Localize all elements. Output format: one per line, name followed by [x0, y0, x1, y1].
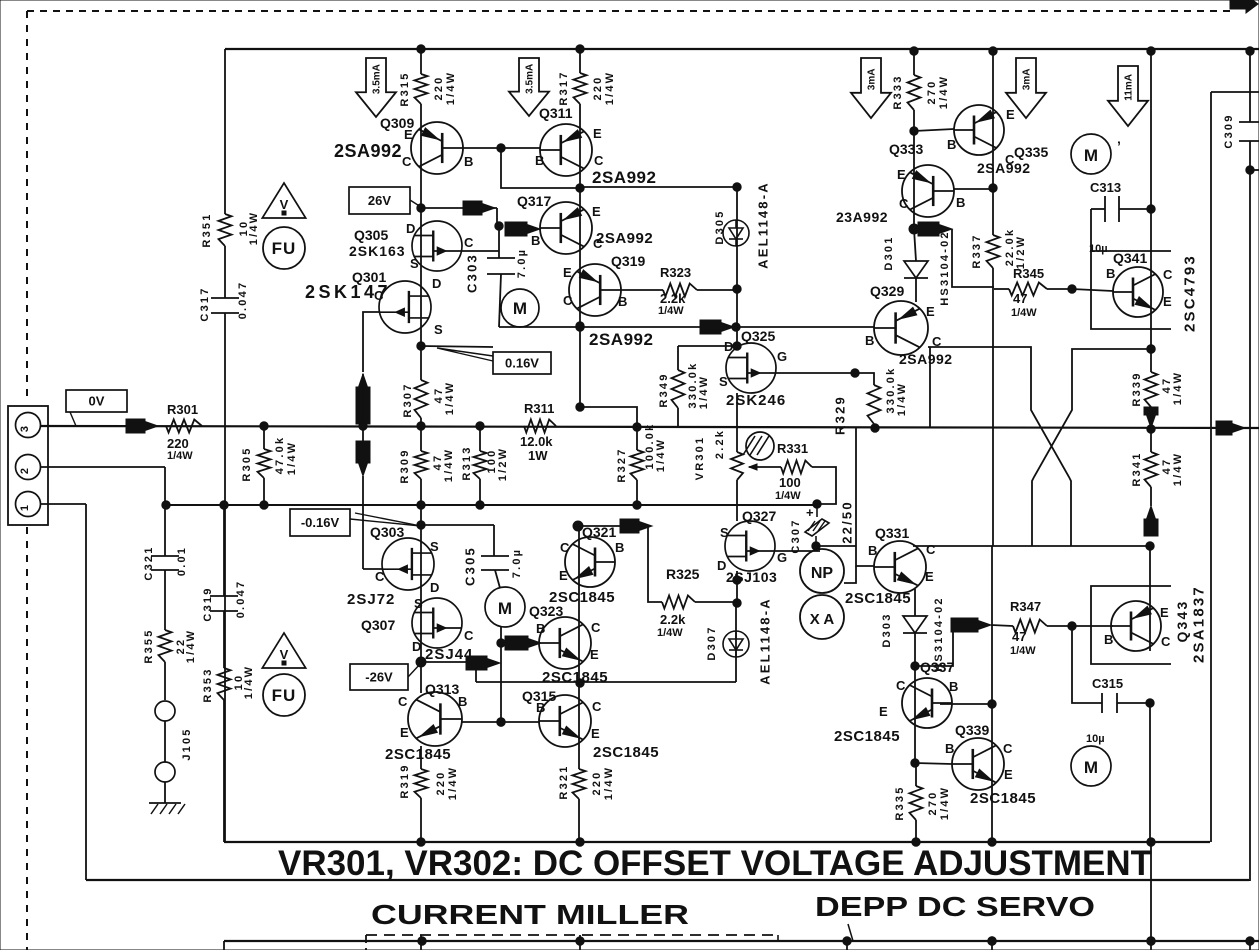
svg-text:E: E [593, 126, 602, 141]
svg-text:0.047: 0.047 [235, 580, 247, 619]
svg-text:Q339: Q339 [955, 722, 989, 738]
svg-text:Q307: Q307 [361, 617, 395, 633]
svg-text:G: G [777, 550, 787, 565]
svg-text:J105: J105 [181, 727, 193, 760]
svg-text:+: + [806, 505, 814, 520]
svg-text:1/4W: 1/4W [939, 786, 951, 820]
svg-text:DEPP DC SERVO: DEPP DC SERVO [815, 891, 1095, 922]
svg-text:C: C [896, 678, 906, 693]
svg-text:Q333: Q333 [889, 141, 923, 157]
svg-text:D: D [717, 558, 726, 573]
svg-text:HS3104-02: HS3104-02 [939, 230, 951, 305]
svg-text:B: B [865, 333, 874, 348]
svg-text:1/4W: 1/4W [603, 766, 615, 800]
svg-text:2SC1845: 2SC1845 [845, 590, 911, 607]
svg-text:C: C [1003, 741, 1013, 756]
svg-text:Q319: Q319 [611, 253, 645, 269]
svg-text:C307: C307 [790, 518, 802, 553]
svg-text:D307: D307 [706, 625, 718, 660]
svg-text:B: B [531, 233, 540, 248]
svg-text:R329: R329 [833, 395, 848, 435]
svg-text:C: C [591, 620, 601, 635]
svg-text:2SJ72: 2SJ72 [347, 591, 395, 608]
svg-text:E: E [897, 167, 906, 182]
svg-text:0V: 0V [89, 394, 105, 409]
svg-text:E: E [879, 704, 888, 719]
svg-text:B: B [618, 294, 627, 309]
svg-text:C305: C305 [463, 546, 478, 586]
svg-text:1/4W: 1/4W [1010, 645, 1036, 657]
svg-text:R331: R331 [777, 441, 808, 456]
svg-text:C: C [464, 628, 474, 643]
svg-text:2: 2 [19, 468, 31, 474]
svg-text:R315: R315 [399, 71, 411, 106]
svg-text:R309: R309 [399, 448, 411, 483]
svg-text:1/4W: 1/4W [1172, 452, 1184, 486]
svg-text:1/4W: 1/4W [444, 381, 456, 415]
svg-text:2SC1845: 2SC1845 [593, 744, 659, 761]
svg-text:C: C [398, 694, 408, 709]
svg-text:C: C [1161, 634, 1171, 649]
svg-text:7.0µ: 7.0µ [511, 548, 523, 578]
svg-text:D305: D305 [714, 209, 726, 244]
svg-text:2SK163: 2SK163 [349, 243, 406, 259]
svg-text:-26V: -26V [365, 670, 393, 685]
svg-text:B: B [947, 137, 956, 152]
svg-text:C319: C319 [202, 586, 214, 621]
svg-text:R353: R353 [202, 667, 214, 702]
svg-text:M: M [1084, 146, 1098, 165]
svg-text:Q329: Q329 [870, 283, 904, 299]
svg-text:2SA992: 2SA992 [977, 160, 1031, 176]
svg-text:R305: R305 [241, 446, 253, 481]
svg-text:2SC1845: 2SC1845 [385, 746, 451, 763]
svg-text:2SC1845: 2SC1845 [542, 669, 608, 686]
svg-text:R307: R307 [402, 382, 414, 417]
svg-text:B: B [949, 679, 958, 694]
svg-text:23A992: 23A992 [836, 209, 888, 225]
svg-text:2.2k: 2.2k [660, 291, 686, 306]
svg-text:V: V [280, 647, 289, 662]
svg-text:1/4W: 1/4W [248, 211, 260, 245]
svg-text:G: G [777, 349, 787, 364]
svg-text:R323: R323 [660, 265, 691, 280]
svg-text:VR301, VR302: DC OFFSET VOLTAG: VR301, VR302: DC OFFSET VOLTAGE ADJUSTME… [278, 844, 1152, 883]
svg-text:1/2W: 1/2W [1015, 235, 1027, 269]
svg-text:B: B [868, 543, 877, 558]
svg-text:12.0k: 12.0k [520, 434, 553, 449]
svg-text:3: 3 [19, 426, 31, 432]
svg-text:C: C [899, 196, 909, 211]
svg-text:2SC1845: 2SC1845 [549, 589, 615, 606]
svg-text:47: 47 [1013, 291, 1027, 306]
svg-text:E: E [1004, 767, 1013, 782]
svg-text:C: C [1005, 152, 1015, 167]
svg-text:R327: R327 [616, 447, 628, 482]
svg-text:D: D [724, 339, 733, 354]
svg-text:2SA992: 2SA992 [592, 168, 656, 187]
svg-text:1/4W: 1/4W [1011, 307, 1037, 319]
svg-text:S: S [430, 539, 439, 554]
svg-text:2SA1837: 2SA1837 [1190, 585, 1207, 663]
svg-text:3mA: 3mA [867, 69, 878, 91]
svg-text:1/2W: 1/2W [497, 447, 509, 481]
svg-text:B: B [458, 694, 467, 709]
svg-text:Q343: Q343 [1174, 599, 1190, 642]
svg-text:2.2k: 2.2k [660, 612, 686, 627]
svg-text:R341: R341 [1131, 451, 1143, 486]
svg-text:2SC1845: 2SC1845 [834, 728, 900, 745]
svg-text:1/4W: 1/4W [185, 629, 197, 663]
svg-text:26V: 26V [368, 193, 391, 208]
svg-text:R345: R345 [1013, 266, 1044, 281]
svg-text:C: C [464, 235, 474, 250]
svg-text:C303: C303 [465, 253, 480, 293]
svg-text:R311: R311 [524, 401, 554, 416]
svg-text:3.5mA: 3.5mA [525, 64, 536, 94]
svg-text:C309: C309 [1223, 113, 1235, 148]
svg-text:2.2k: 2.2k [714, 429, 726, 459]
svg-text:E: E [1006, 107, 1015, 122]
svg-text:47: 47 [1012, 629, 1026, 644]
svg-text:Q331: Q331 [875, 525, 909, 541]
svg-text:1/4W: 1/4W [445, 71, 457, 105]
svg-text:Q321: Q321 [582, 524, 616, 540]
svg-text:E: E [926, 304, 935, 319]
svg-text:AEL1148-A: AEL1148-A [756, 181, 771, 269]
svg-text:E: E [404, 127, 413, 142]
svg-text:C: C [592, 699, 602, 714]
svg-text:-0.16V: -0.16V [301, 515, 340, 530]
svg-text:D303: D303 [881, 612, 893, 647]
svg-text:R355: R355 [143, 628, 155, 663]
svg-text:C: C [374, 288, 384, 303]
svg-text:1/4W: 1/4W [658, 305, 684, 317]
svg-text:S: S [410, 256, 419, 271]
svg-text:C: C [926, 542, 936, 557]
svg-text:NP: NP [811, 565, 834, 582]
svg-text:Q317: Q317 [517, 193, 551, 209]
svg-text:2SA992: 2SA992 [899, 351, 953, 367]
svg-text:Q305: Q305 [354, 227, 388, 243]
svg-text:2SA992: 2SA992 [589, 330, 653, 349]
svg-text:2SA992: 2SA992 [596, 230, 653, 247]
svg-text:D301: D301 [883, 235, 895, 270]
svg-text:FU: FU [272, 686, 297, 705]
svg-text:1/4W: 1/4W [443, 448, 455, 482]
svg-text:220: 220 [435, 771, 447, 796]
svg-text:C: C [402, 154, 412, 169]
svg-text:C: C [1163, 267, 1173, 282]
svg-text:R351: R351 [201, 212, 213, 247]
svg-text:270: 270 [927, 791, 939, 816]
svg-text:E: E [591, 726, 600, 741]
svg-text:B: B [1104, 632, 1113, 647]
svg-text:3mA: 3mA [1022, 69, 1033, 91]
svg-text:S: S [719, 374, 728, 389]
svg-text:R317: R317 [558, 70, 570, 105]
svg-text:E: E [925, 569, 934, 584]
svg-text:E: E [592, 204, 601, 219]
svg-text:2SC4793: 2SC4793 [1181, 254, 1198, 332]
svg-text:VR301: VR301 [694, 436, 706, 481]
svg-text:B: B [464, 154, 473, 169]
svg-text:E: E [1160, 605, 1169, 620]
svg-text:CURRENT MILLER: CURRENT MILLER [371, 899, 689, 930]
svg-text:S: S [720, 525, 729, 540]
svg-text:E: E [563, 265, 572, 280]
svg-text:220: 220 [592, 76, 604, 101]
svg-text:1/4W: 1/4W [447, 766, 459, 800]
svg-text:B: B [615, 540, 624, 555]
svg-text:1/4W: 1/4W [1172, 371, 1184, 405]
svg-text:1/4W: 1/4W [896, 382, 908, 416]
svg-text:11mA: 11mA [1124, 74, 1135, 101]
svg-text:1/4W: 1/4W [243, 665, 255, 699]
svg-text:R321: R321 [558, 764, 570, 799]
svg-text:D: D [412, 639, 421, 654]
svg-text:C: C [594, 153, 604, 168]
svg-text:220: 220 [591, 771, 603, 796]
svg-text:C: C [593, 236, 603, 251]
svg-text:FU: FU [272, 239, 297, 258]
svg-text:E: E [400, 725, 409, 740]
svg-text:0.047: 0.047 [237, 281, 249, 320]
svg-text:3.5mA: 3.5mA [372, 64, 383, 94]
svg-text:C321: C321 [143, 545, 155, 580]
svg-text:270: 270 [926, 80, 938, 105]
svg-text:22/50: 22/50 [840, 500, 855, 544]
svg-text:0.01: 0.01 [176, 546, 188, 576]
svg-text:M: M [498, 599, 512, 618]
svg-text:R319: R319 [399, 763, 411, 798]
svg-text:2SA992: 2SA992 [334, 141, 402, 161]
svg-text:B: B [536, 700, 545, 715]
svg-text:B: B [956, 195, 965, 210]
svg-text:R347: R347 [1010, 599, 1041, 614]
svg-text:R325: R325 [666, 566, 700, 582]
svg-text:R313: R313 [461, 445, 473, 480]
svg-text:C315: C315 [1092, 676, 1123, 691]
svg-text:1/4W: 1/4W [286, 441, 298, 475]
svg-text:R337: R337 [971, 233, 983, 268]
svg-text:220: 220 [433, 76, 445, 101]
svg-text:X A: X A [810, 611, 835, 628]
svg-text:M: M [1084, 758, 1098, 777]
svg-text:2SC1845: 2SC1845 [970, 790, 1036, 807]
svg-text:47.0k: 47.0k [274, 436, 286, 475]
svg-text:R333: R333 [892, 74, 904, 109]
svg-text:R349: R349 [658, 372, 670, 407]
svg-text:1/4W: 1/4W [655, 438, 667, 472]
svg-text:B: B [1106, 266, 1115, 281]
svg-text:D: D [406, 221, 415, 236]
svg-text:V: V [280, 197, 289, 212]
svg-text:1/4W: 1/4W [167, 450, 193, 462]
svg-text:AEL1148-A: AEL1148-A [758, 597, 773, 685]
svg-text:Q325: Q325 [741, 328, 775, 344]
svg-text:B: B [945, 741, 954, 756]
svg-text:R301: R301 [167, 402, 198, 417]
svg-text:1/4W: 1/4W [657, 627, 683, 639]
svg-text:0.16V: 0.16V [505, 356, 539, 371]
svg-text:1/4W: 1/4W [698, 375, 710, 409]
svg-text:1W: 1W [528, 448, 548, 463]
svg-text:D: D [432, 276, 441, 291]
svg-text:S: S [414, 596, 423, 611]
svg-text:7.0µ: 7.0µ [516, 248, 528, 278]
svg-text:E: E [590, 647, 599, 662]
svg-text:D: D [430, 580, 439, 595]
svg-text:1/4W: 1/4W [604, 71, 616, 105]
svg-text:100: 100 [779, 475, 801, 490]
svg-text:R339: R339 [1131, 371, 1143, 406]
svg-text:M: M [513, 299, 527, 318]
svg-text:C: C [375, 569, 385, 584]
svg-text:Q311: Q311 [539, 105, 573, 121]
svg-text:C317: C317 [199, 286, 211, 321]
svg-text:Q335: Q335 [1014, 144, 1048, 160]
svg-text:S: S [434, 322, 443, 337]
svg-text:B: B [536, 621, 545, 636]
svg-text:’: ’ [1117, 138, 1121, 154]
svg-text:10µ: 10µ [1086, 733, 1105, 745]
svg-text:Q313: Q313 [425, 681, 459, 697]
svg-text:2SK246: 2SK246 [726, 392, 786, 409]
svg-text:R335: R335 [894, 785, 906, 820]
svg-text:1/4W: 1/4W [938, 75, 950, 109]
svg-text:C: C [560, 540, 570, 555]
svg-text:1/4W: 1/4W [775, 490, 801, 502]
svg-text:Q327: Q327 [742, 508, 776, 524]
svg-text:E: E [1163, 294, 1172, 309]
svg-text:E: E [559, 568, 568, 583]
svg-text:Q337: Q337 [920, 659, 954, 675]
svg-text:C313: C313 [1090, 180, 1121, 195]
svg-text:Q303: Q303 [370, 524, 404, 540]
svg-text:1: 1 [19, 505, 31, 511]
svg-text:220: 220 [167, 436, 189, 451]
svg-text:Q341: Q341 [1113, 250, 1147, 266]
svg-text:C: C [563, 293, 573, 308]
svg-text:B: B [535, 153, 544, 168]
